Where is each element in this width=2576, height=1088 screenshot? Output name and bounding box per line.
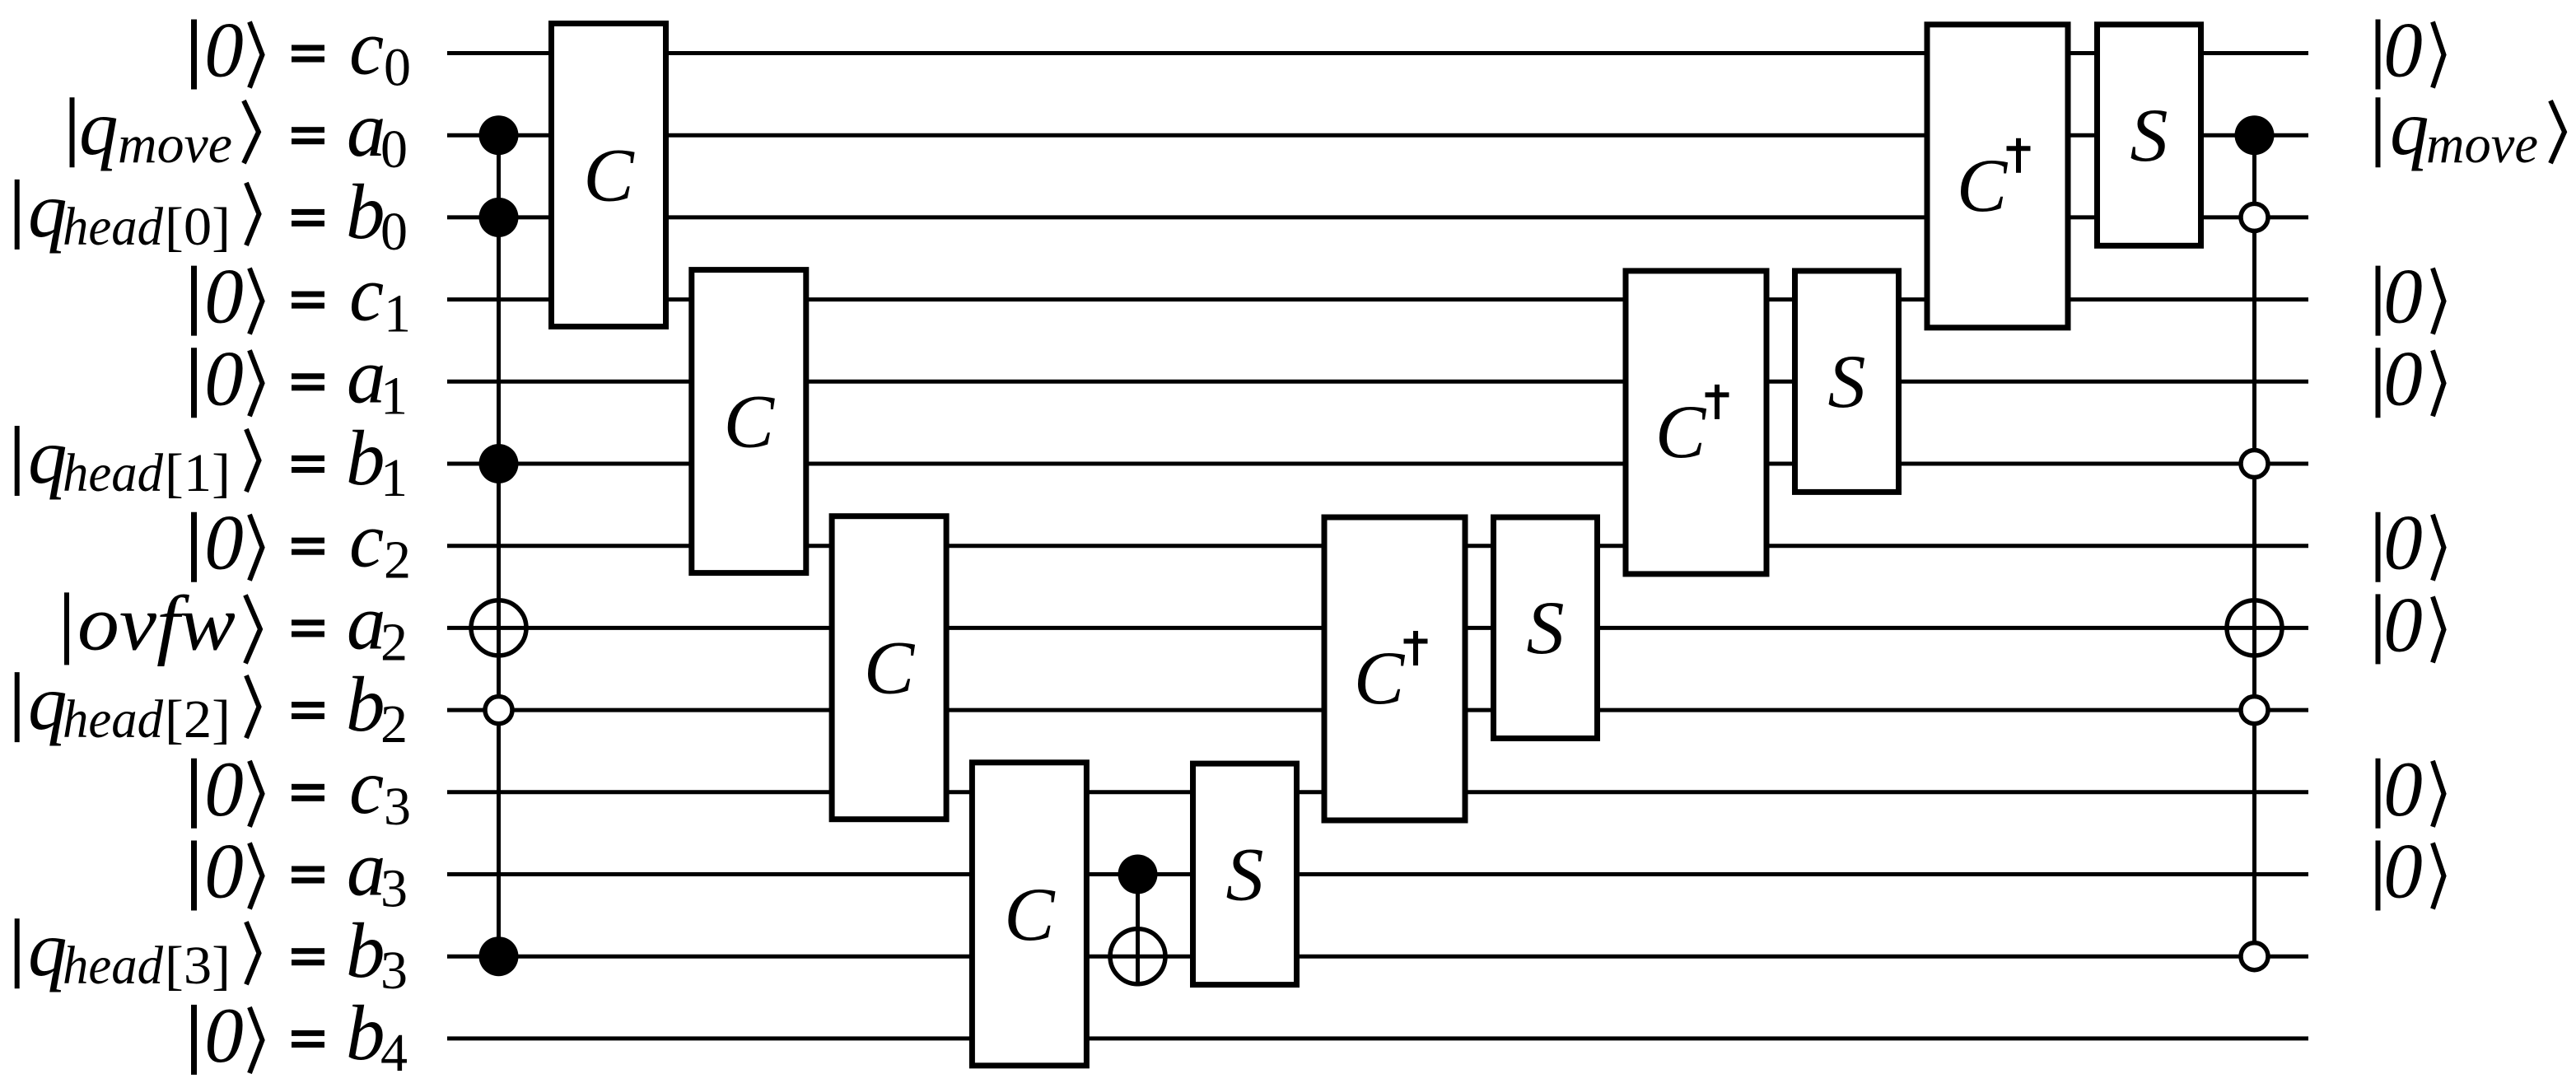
svg-text:[0]: [0] (165, 197, 231, 257)
node label left b1 (|q_head&gt; = b1) (17, 413, 408, 508)
svg-text:c: c (349, 250, 384, 338)
wire a3 (447, 872, 2308, 876)
svg-text:0: 0 (204, 7, 244, 94)
node label right |0&gt; on c3 (2378, 745, 2444, 833)
svg-text:move: move (118, 114, 232, 175)
gate S3 (sum box S, qubits c3 a3 b3) (1193, 763, 1297, 985)
wire c2 (447, 544, 2308, 548)
svg-text:C: C (1354, 636, 1406, 720)
svg-text:q: q (28, 413, 68, 500)
svg-text:S: S (1828, 339, 1866, 423)
svg-text:q: q (79, 84, 119, 171)
XOR target a2 (left) (469, 598, 528, 657)
svg-text:1: 1 (384, 284, 411, 344)
svg-text:0: 0 (2383, 253, 2423, 340)
svg-text:0: 0 (204, 745, 244, 833)
wire a2 (447, 626, 2308, 630)
svg-text:[2]: [2] (165, 689, 231, 749)
svg-text:b: b (346, 661, 385, 748)
open control b0 (right) (2241, 203, 2268, 231)
node label left b0 (|q_head&gt; = b0) (17, 166, 408, 262)
CNOT control dot a3 (1118, 855, 1158, 894)
node label right |q_move&gt; on a0 (2378, 84, 2565, 175)
svg-text:c: c (349, 743, 384, 830)
svg-text:3: 3 (384, 777, 411, 837)
wire b4 (447, 1036, 2308, 1040)
svg-text:c: c (349, 4, 384, 91)
svg-text:0: 0 (2383, 7, 2423, 94)
node label left c0 (|0&gt; = c0) (194, 4, 412, 98)
svg-text:4: 4 (380, 1023, 408, 1083)
node label left a3 (|0&gt; = a3) (194, 825, 408, 919)
svg-text:1: 1 (380, 448, 408, 508)
gate S2 (sum box S, qubits c2 a2 b2) (1494, 517, 1598, 739)
svg-text:q: q (28, 905, 68, 992)
node label left a0 (|q_move&gt; = a0) (72, 84, 408, 180)
node label left b2 (|q_head&gt; = b2) (17, 659, 408, 754)
gate C0 (carry box C, qubits c0 a0 b0 c1) (552, 24, 666, 327)
svg-text:C: C (1004, 872, 1056, 956)
svg-text:[3]: [3] (165, 936, 231, 996)
open control b2 (left) (485, 697, 512, 724)
svg-text:b: b (346, 414, 385, 502)
control dot a0 (right) (2235, 115, 2275, 155)
svg-text:C: C (1655, 390, 1707, 474)
svg-text:0: 0 (2383, 334, 2423, 422)
svg-text:c: c (349, 497, 384, 584)
wire b1 (447, 462, 2308, 466)
gate Cdagger0 (inverse carry, qubits c0 a0 b0 c1) (1927, 25, 2068, 328)
svg-text:C: C (1957, 143, 2009, 227)
node label left b3 (|q_head&gt; = b3) (17, 905, 408, 1001)
svg-text:move: move (2426, 114, 2538, 175)
wire b0 (447, 215, 2308, 219)
XOR target a2 (right) (2224, 598, 2284, 657)
gate C1 (carry box C, qubits c1 a1 b1 c2) (692, 270, 806, 573)
control line (right multi-qubit gate) (2252, 135, 2256, 956)
svg-text:C: C (583, 133, 635, 217)
node label right |0&gt; on c2 (2378, 499, 2444, 586)
node label left a1 (|0&gt; = a1) (194, 332, 408, 426)
wire b2 (447, 708, 2308, 712)
wire a1 (447, 380, 2308, 384)
wire c0 (447, 51, 2308, 55)
svg-text:b: b (346, 168, 385, 255)
node label left c3 (|0&gt; = c3) (194, 743, 412, 837)
CNOT target b3 (1108, 927, 1167, 986)
svg-text:2: 2 (380, 694, 408, 754)
node label left b4 (|0&gt; = b4) (194, 989, 408, 1083)
svg-text:2: 2 (384, 530, 411, 591)
svg-text:head: head (63, 197, 164, 257)
control dot a0 (left) (479, 115, 519, 155)
svg-text:q: q (2390, 84, 2429, 171)
node label right |0&gt; on a3 (2378, 828, 2444, 915)
gate S1 (sum box S, qubits c1 a1 b1) (1795, 271, 1899, 493)
svg-text:0: 0 (204, 992, 244, 1079)
node label left a2 (|ovfw&gt; = a2) (67, 578, 408, 672)
svg-text:0: 0 (2383, 499, 2423, 586)
gate Cdagger2 (inverse carry, qubits c2 a2 b2 c3) (1324, 517, 1465, 820)
svg-text:S: S (1527, 586, 1565, 670)
svg-text:0: 0 (204, 253, 244, 340)
svg-text:0: 0 (2383, 745, 2423, 833)
svg-text:head: head (63, 936, 164, 996)
gate C3 (carry box C, qubits c3 a3 b3 c4) (972, 763, 1086, 1066)
svg-text:b: b (346, 989, 385, 1076)
node label left c2 (|0&gt; = c2) (194, 497, 412, 591)
open control b2 (right) (2241, 697, 2268, 724)
svg-text:head: head (63, 443, 164, 503)
svg-text:head: head (63, 689, 164, 749)
svg-text:[1]: [1] (165, 443, 231, 503)
CNOT connector a3-b3 (1136, 875, 1140, 984)
svg-text:0: 0 (204, 334, 244, 422)
svg-text:0: 0 (204, 828, 244, 915)
svg-text:q: q (28, 659, 68, 746)
wire b3 (447, 955, 2308, 959)
open control b1 (right) (2241, 451, 2268, 478)
node label right |0&gt; on a1 (2378, 334, 2444, 422)
gate S0 (sum box S, qubits c0 a0 b0) (2098, 25, 2201, 246)
gate C2 (carry box C, qubits c2 a2 b2 c3) (832, 516, 946, 820)
svg-text:C: C (864, 626, 916, 710)
svg-text:S: S (2130, 93, 2168, 177)
control dot b0 (left) (479, 198, 519, 237)
node label right |0&gt; on c0 (2378, 7, 2444, 94)
control line (left multi-qubit gate) (497, 135, 501, 956)
svg-text:0: 0 (204, 499, 244, 586)
node label right |0&gt; on a2 (2378, 581, 2444, 668)
svg-text:S: S (1226, 832, 1264, 916)
wire c1 (447, 297, 2308, 301)
svg-text:0: 0 (380, 202, 408, 262)
svg-text:b: b (346, 907, 385, 994)
control dot b3 (left) (479, 936, 519, 976)
svg-text:C: C (724, 380, 776, 464)
svg-text:q: q (28, 166, 68, 254)
control dot b1 (left) (479, 444, 519, 483)
svg-text:0: 0 (2383, 828, 2423, 915)
svg-text:ovfw: ovfw (77, 579, 236, 666)
node label right |0&gt; on c1 (2378, 253, 2444, 340)
wire a0 (447, 133, 2308, 138)
svg-text:0: 0 (384, 38, 411, 98)
open control b3 (right) (2241, 943, 2268, 970)
wire c3 (447, 790, 2308, 794)
node label left c1 (|0&gt; = c1) (194, 250, 412, 344)
gate Cdagger1 (inverse carry, qubits c1 a1 b1 c2) (1626, 271, 1766, 574)
svg-text:0: 0 (2383, 581, 2423, 668)
